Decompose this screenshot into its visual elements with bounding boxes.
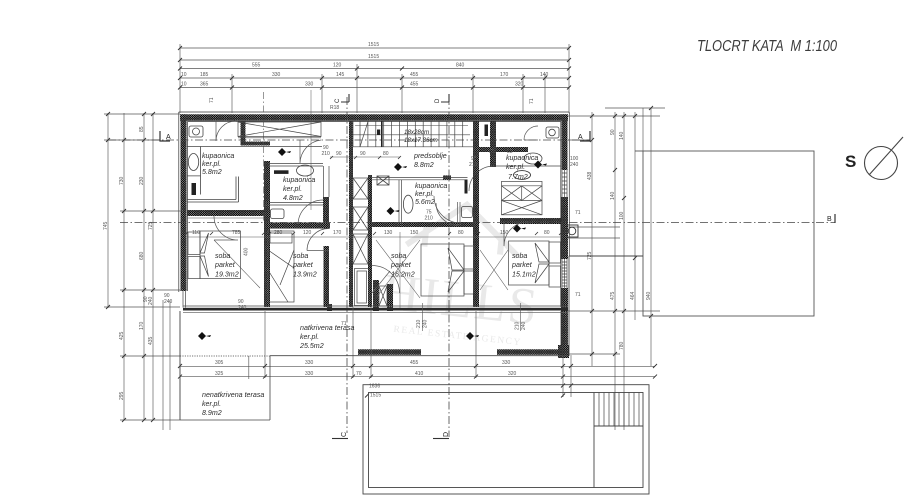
- room crosses: [214, 240, 508, 298]
- black diamonds: [198, 148, 547, 340]
- terrace boundaries: [180, 311, 568, 420]
- fixtures kup7.7: [485, 125, 560, 165]
- watermark: [378, 197, 549, 350]
- svg-text:325: 325: [215, 371, 224, 377]
- kup 7.7 wardrobe: [502, 181, 543, 214]
- svg-text:D: D: [435, 98, 441, 103]
- svg-text:940: 940: [646, 291, 652, 300]
- svg-text:210: 210: [515, 321, 521, 330]
- svg-text:soba: soba: [293, 252, 308, 260]
- door kup 5.6: [436, 202, 460, 226]
- door soba 19.3: [214, 216, 238, 240]
- svg-text:140: 140: [540, 72, 549, 78]
- svg-text:438: 438: [587, 171, 593, 180]
- svg-text:1515: 1515: [368, 42, 379, 48]
- svg-text:18x17.36cm: 18x17.36cm: [404, 137, 438, 144]
- svg-text:100: 100: [619, 211, 625, 220]
- svg-text:145: 145: [336, 72, 345, 78]
- svg-text:330: 330: [272, 72, 281, 78]
- dimension chains right: [568, 108, 665, 430]
- svg-text:ker.pl.: ker.pl.: [202, 400, 221, 408]
- svg-text:C: C: [341, 432, 348, 437]
- column symbol: [567, 225, 579, 237]
- wall right: [562, 114, 568, 170]
- svg-text:71: 71: [209, 97, 215, 103]
- svg-text:240: 240: [521, 321, 527, 330]
- door 16.2: [372, 232, 400, 308]
- svg-text:80: 80: [458, 230, 464, 236]
- door kup 5.6 to soba 16.2: [434, 196, 461, 223]
- section line D: [448, 97, 450, 437]
- kup 5.6 bottom wall: [372, 222, 473, 227]
- svg-text:170: 170: [139, 321, 145, 330]
- svg-text:4.8m2: 4.8m2: [283, 194, 303, 202]
- svg-text:10: 10: [181, 72, 187, 78]
- radiator bar 5.8: [192, 183, 197, 195]
- svg-text:680: 680: [139, 251, 145, 260]
- svg-text:parket: parket: [214, 261, 236, 269]
- svg-text:25.5m2: 25.5m2: [299, 342, 324, 350]
- svg-text:nenatkrivena terasa: nenatkrivena terasa: [202, 391, 264, 399]
- svg-text:B: B: [827, 216, 832, 223]
- svg-text:240: 240: [164, 299, 173, 305]
- svg-text:R18: R18: [330, 105, 339, 111]
- svg-text:435: 435: [148, 336, 154, 345]
- svg-text:85: 85: [139, 126, 145, 132]
- extension verticals: [179, 44, 181, 113]
- svg-text:170: 170: [500, 72, 509, 78]
- window size labels: [164, 156, 581, 327]
- svg-text:555: 555: [252, 63, 261, 69]
- bed 13.9: [268, 231, 294, 302]
- svg-text:150: 150: [410, 230, 419, 236]
- svg-text:soba: soba: [512, 252, 527, 260]
- svg-text:320: 320: [515, 82, 524, 88]
- svg-text:240: 240: [148, 296, 154, 305]
- door dim tick 210/240: [422, 303, 520, 331]
- wall right column small: [490, 121, 496, 167]
- svg-text:330: 330: [502, 360, 511, 366]
- stair shaft X boxes: [353, 178, 387, 306]
- svg-text:parket: parket: [390, 261, 412, 269]
- wall under top-right toilets: [479, 147, 528, 152]
- dimension labels top: [181, 42, 549, 88]
- interior wall W2: [187, 210, 270, 216]
- svg-text:80: 80: [383, 151, 389, 157]
- svg-text:parket: parket: [292, 261, 314, 269]
- ellipse around 7.7m2: [514, 171, 531, 180]
- svg-text:85: 85: [489, 149, 495, 155]
- svg-text:ker.pl.: ker.pl.: [283, 185, 302, 193]
- svg-text:predsoblje: predsoblje: [413, 152, 447, 160]
- svg-text:5.8m2: 5.8m2: [202, 168, 222, 176]
- svg-text:18x28cm: 18x28cm: [404, 129, 429, 136]
- svg-text:A: A: [166, 134, 171, 141]
- svg-text:780: 780: [619, 341, 625, 350]
- svg-text:230: 230: [139, 176, 145, 185]
- door soba 15.1: [504, 222, 528, 246]
- svg-text:5.6m2: 5.6m2: [415, 198, 435, 206]
- svg-text:19.3m2: 19.3m2: [215, 271, 239, 279]
- big right rectangle (roof outline): [635, 151, 814, 316]
- window bands (thin double lines): [183, 164, 567, 308]
- svg-text:140: 140: [619, 131, 625, 140]
- svg-text:210: 210: [469, 162, 478, 168]
- door kup 4.8: [298, 200, 323, 225]
- door soba 13.9: [307, 229, 329, 251]
- svg-text:ker.pl.: ker.pl.: [202, 160, 221, 168]
- kup 5.6 top wall pier: [443, 175, 451, 180]
- section line A: [108, 139, 590, 141]
- stair shaft walls: [349, 121, 353, 307]
- main plan: [103, 38, 903, 494]
- svg-text:730: 730: [119, 176, 125, 185]
- svg-text:365: 365: [200, 82, 209, 88]
- svg-text:330: 330: [305, 371, 314, 377]
- terrace parapet strips: [358, 349, 421, 355]
- room labels: [202, 152, 538, 417]
- wall left: [181, 114, 187, 291]
- svg-text:210: 210: [322, 151, 331, 157]
- svg-text:C: C: [335, 98, 341, 103]
- svg-text:185: 185: [200, 72, 209, 78]
- svg-text:TLOCRT KATA M 1:100: TLOCRT KATA M 1:100: [697, 38, 837, 55]
- svg-text:130: 130: [384, 230, 393, 236]
- bottom wall edge: [183, 306, 568, 313]
- door arcs: [214, 121, 538, 251]
- section line B: [120, 222, 835, 224]
- svg-text:240: 240: [423, 319, 429, 328]
- svg-text:71: 71: [529, 98, 535, 104]
- bed 16.2: [421, 244, 464, 296]
- central vertical wall: [473, 121, 479, 307]
- svg-text:soba: soba: [215, 252, 230, 260]
- svg-text:455: 455: [410, 72, 419, 78]
- svg-text:210: 210: [425, 216, 434, 222]
- svg-text:13.9m2: 13.9m2: [293, 271, 317, 279]
- title: [697, 38, 837, 55]
- svg-text:natkrivena terasa: natkrivena terasa: [300, 324, 354, 332]
- svg-text:110: 110: [192, 230, 200, 236]
- svg-text:parket: parket: [511, 261, 533, 269]
- svg-text:ker.pl.: ker.pl.: [415, 190, 434, 198]
- svg-text:kupaonica: kupaonica: [283, 176, 315, 184]
- svg-text:10: 10: [181, 82, 187, 88]
- svg-text:140: 140: [610, 191, 616, 200]
- radiator bar right wall: [465, 180, 468, 194]
- svg-text:71: 71: [575, 210, 581, 216]
- door kup 5.8: [216, 121, 236, 141]
- dimension chains top: [180, 44, 569, 210]
- svg-text:71: 71: [575, 292, 581, 298]
- svg-text:210: 210: [416, 319, 422, 328]
- svg-text:330: 330: [305, 82, 314, 88]
- svg-text:90: 90: [610, 129, 616, 135]
- svg-text:745: 745: [103, 221, 109, 230]
- svg-text:240: 240: [238, 305, 247, 311]
- interior wall W3: [323, 197, 329, 229]
- svg-text:kupaonica: kupaonica: [202, 152, 234, 160]
- svg-text:170: 170: [333, 230, 342, 236]
- svg-text:70: 70: [356, 371, 362, 377]
- svg-text:400: 400: [244, 247, 250, 256]
- svg-text:240: 240: [570, 162, 579, 168]
- fixtures kup5.8: [187, 126, 239, 202]
- wardrobe top middle: [187, 122, 322, 147]
- svg-text:475: 475: [610, 291, 616, 300]
- svg-text:8.8m2: 8.8m2: [414, 161, 434, 169]
- svg-text:320: 320: [508, 371, 517, 377]
- interior wall W1: [264, 161, 270, 307]
- svg-text:305: 305: [215, 360, 224, 366]
- svg-text:ker.pl.: ker.pl.: [506, 163, 525, 171]
- beds: [188, 231, 561, 302]
- svg-text:425: 425: [119, 331, 125, 340]
- grid line at x=263.7: [263, 92, 265, 222]
- svg-text:kupaonica: kupaonica: [415, 182, 447, 190]
- svg-text:ker.pl.: ker.pl.: [300, 333, 319, 341]
- in-room dimension row: [185, 218, 562, 237]
- svg-text:80: 80: [544, 230, 550, 236]
- R18 label and wall tags: [209, 97, 535, 111]
- dimension chains bottom: [180, 307, 655, 420]
- terrace east boundary: [569, 256, 643, 356]
- svg-text:kupaonica: kupaonica: [506, 154, 538, 162]
- svg-text:15.1m2: 15.1m2: [512, 271, 536, 279]
- svg-text:120: 120: [303, 230, 312, 236]
- svg-text:90: 90: [336, 151, 342, 157]
- svg-text:840: 840: [456, 63, 465, 69]
- svg-text:120: 120: [333, 63, 342, 69]
- bed 15.1: [509, 241, 550, 285]
- door wc top-right: [524, 126, 538, 140]
- wall between predsoblje and kup 7.7: [494, 165, 561, 167]
- svg-text:1515: 1515: [368, 54, 379, 60]
- outer wall top: [180, 114, 569, 358]
- svg-text:7.7m2: 7.7m2: [508, 173, 528, 181]
- svg-text:A: A: [578, 134, 583, 141]
- svg-text:455: 455: [410, 82, 419, 88]
- soba 15.1 top wall: [500, 218, 561, 224]
- radiator bar shaft: [377, 130, 380, 136]
- pool: [363, 385, 649, 494]
- svg-text:455: 455: [410, 360, 419, 366]
- predsoblje small dim row: [330, 156, 401, 159]
- corridor L wall: [241, 121, 246, 146]
- svg-text:S: S: [845, 152, 856, 171]
- dimension ticks top: [178, 46, 571, 90]
- svg-text:90: 90: [360, 151, 366, 157]
- stairs: [351, 121, 473, 147]
- svg-text:D: D: [443, 432, 450, 437]
- bottom wall piers: [327, 304, 332, 311]
- svg-text:295: 295: [119, 391, 125, 400]
- door kup 7.7: [469, 166, 494, 191]
- svg-text:1515: 1515: [370, 393, 381, 399]
- fixtures kup5.6: [377, 176, 473, 218]
- section line C: [346, 97, 348, 433]
- svg-text:410: 410: [415, 371, 424, 377]
- wall face lines: [179, 112, 570, 307]
- bed 19.3: [200, 231, 241, 279]
- fixtures kup4.8: [271, 165, 314, 219]
- door corridor-predsoblje: [300, 140, 321, 163]
- svg-text:464: 464: [630, 291, 636, 300]
- svg-text:soba: soba: [391, 252, 406, 260]
- svg-text:330: 330: [305, 360, 314, 366]
- svg-text:16.2m2: 16.2m2: [391, 271, 415, 279]
- svg-text:8.9m2: 8.9m2: [202, 409, 222, 417]
- compass S: [845, 137, 903, 180]
- dimension chains left: [104, 113, 183, 430]
